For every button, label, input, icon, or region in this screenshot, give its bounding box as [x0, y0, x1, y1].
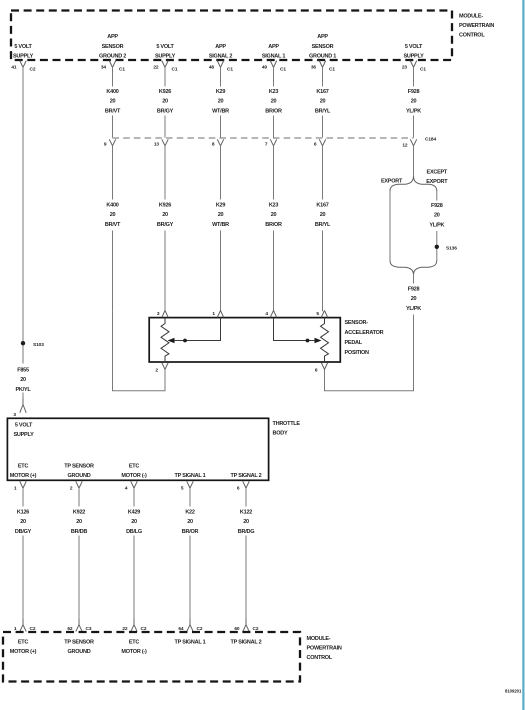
svg-text:DB/LG: DB/LG: [126, 529, 142, 535]
svg-text:SUPPLY: SUPPLY: [13, 54, 34, 60]
svg-text:1: 1: [14, 486, 17, 492]
PCM pin label: 5 VOLT SUPPLY: [155, 44, 176, 60]
wire K29 20 WT/BR (lower segment): [212, 146, 229, 311]
svg-text:BR/OR: BR/OR: [265, 108, 282, 114]
svg-text:23: 23: [402, 65, 408, 71]
bottom PCM pin label: ETC MOTOR (-): [121, 640, 147, 656]
svg-text:MODULE-: MODULE-: [307, 636, 331, 642]
svg-text:K29: K29: [216, 203, 226, 209]
svg-text:BR/GY: BR/GY: [157, 108, 174, 114]
label: THROTTLE BODY: [273, 421, 301, 437]
connector C184 (in-line, dashed): [113, 137, 437, 143]
wire K400 elbow to sensor pin 2: [113, 311, 166, 391]
svg-text:C2: C2: [30, 67, 36, 73]
svg-text:20: 20: [110, 99, 116, 105]
svg-text:POWERTRAIN: POWERTRAIN: [459, 23, 494, 29]
svg-text:SUPPLY: SUPPLY: [13, 432, 34, 438]
svg-text:TP SENSOR: TP SENSOR: [64, 640, 94, 646]
svg-text:THROTTLE: THROTTLE: [273, 421, 301, 427]
sensor pin 4 connector (top): [265, 311, 276, 318]
svg-text:SENSOR: SENSOR: [102, 44, 124, 50]
svg-text:K23: K23: [269, 89, 279, 95]
splice S136: [435, 245, 458, 252]
svg-text:SENSOR-: SENSOR-: [345, 320, 369, 326]
wire K922 20 BR/DB: [71, 488, 87, 618]
sensor pin 2 connector (bottom): [155, 363, 168, 374]
svg-text:EXCEPT: EXCEPT: [427, 170, 448, 176]
module: THROTTLE BODY (box): [7, 418, 268, 480]
svg-text:6: 6: [315, 368, 318, 374]
svg-text:20: 20: [20, 377, 26, 383]
PCM pin label: 5 VOLT SUPPLY: [403, 44, 424, 60]
potentiometer APP1 (left element): [161, 318, 169, 363]
svg-text:BR/VT: BR/VT: [105, 222, 121, 228]
PCM pin 64 C2 connector (bottom module): [178, 618, 203, 632]
svg-text:20: 20: [218, 212, 224, 218]
wire K400 20 BR/VT (lower segment): [105, 146, 121, 311]
svg-text:20: 20: [271, 212, 277, 218]
wire K429 20 DB/LG: [126, 488, 142, 618]
svg-text:C184: C184: [425, 137, 436, 143]
svg-text:S103: S103: [33, 342, 44, 348]
wire K400 20 BR/VT (upper segment): [105, 67, 121, 138]
svg-text:K122: K122: [240, 510, 252, 516]
module U1: MODULE-POWERTRAIN CONTROL (bottom dashed box): [3, 632, 300, 682]
PCM pin 49 C1 connector: [262, 61, 287, 73]
wire K29 20 WT/BR (upper segment): [212, 67, 229, 138]
svg-text:20: 20: [320, 99, 326, 105]
svg-text:BR/YL: BR/YL: [315, 222, 331, 228]
svg-text:CONTROL: CONTROL: [307, 655, 333, 661]
throttle body pin 6 connector (bottom): [237, 481, 249, 491]
svg-text:20: 20: [131, 519, 137, 525]
wire K22 20 BR/OR: [182, 488, 199, 618]
svg-text:SUPPLY: SUPPLY: [155, 54, 176, 60]
bottom PCM pin label: TP SIGNAL 1: [175, 640, 206, 646]
svg-text:MOTOR (-): MOTOR (-): [121, 473, 147, 479]
potentiometer APP2 wiper arm: [274, 318, 322, 344]
svg-text:SUPPLY: SUPPLY: [403, 54, 424, 60]
throttle body pin label: 5 VOLT SUPPLY: [13, 423, 34, 439]
sensor pin 6 connector (bottom): [315, 363, 328, 374]
svg-text:49: 49: [262, 65, 268, 71]
svg-text:WT/BR: WT/BR: [212, 222, 229, 228]
svg-text:20: 20: [411, 99, 417, 105]
svg-text:SENSOR: SENSOR: [312, 44, 334, 50]
PCM pin 36 C1 connector: [311, 61, 336, 73]
svg-text:K922: K922: [73, 510, 85, 516]
PCM pin 60 C2 connector (bottom module): [234, 618, 259, 632]
svg-text:WT/BR: WT/BR: [212, 108, 229, 114]
sensor pin 1 connector (top): [212, 311, 223, 318]
svg-text:20: 20: [162, 212, 168, 218]
svg-text:3: 3: [157, 311, 160, 317]
svg-text:C1: C1: [227, 67, 233, 73]
svg-text:EXPORT: EXPORT: [381, 179, 403, 185]
svg-text:ETC: ETC: [18, 640, 29, 646]
svg-text:POWERTRAIN: POWERTRAIN: [307, 646, 342, 652]
svg-text:20: 20: [187, 519, 193, 525]
wire K122 20 BR/DG: [238, 488, 254, 618]
svg-text:8109201: 8109201: [505, 689, 522, 694]
PCM pin label: APP SENSOR GROUND 1: [309, 34, 336, 59]
svg-text:GROUND 1: GROUND 1: [309, 54, 336, 60]
svg-text:6: 6: [314, 142, 317, 148]
svg-text:ETC: ETC: [18, 464, 29, 470]
label: MODULE-POWERTRAIN CONTROL (top right): [459, 14, 494, 39]
svg-text:EXPORT: EXPORT: [426, 179, 448, 185]
wire K167 20 BR/YL (lower segment): [315, 146, 331, 311]
svg-text:BR/YL: BR/YL: [315, 108, 331, 114]
throttle body pin label: ETC MOTOR (+): [10, 464, 37, 480]
option split brace (top): [390, 176, 437, 191]
svg-text:BR/GY: BR/GY: [157, 222, 174, 228]
svg-text:20: 20: [110, 212, 116, 218]
PCM pin 41 C2 connector: [11, 61, 36, 73]
svg-text:8: 8: [212, 142, 215, 148]
svg-text:K400: K400: [106, 203, 118, 209]
connector C184 pin 6: [314, 139, 326, 147]
svg-text:PEDAL: PEDAL: [345, 340, 363, 346]
svg-text:ETC: ETC: [129, 640, 140, 646]
wire F928 20 YL/PK (lower segment to sensor pin 6): [325, 275, 422, 391]
svg-text:TP SIGNAL 1: TP SIGNAL 1: [175, 473, 206, 479]
svg-text:9: 9: [104, 142, 107, 148]
label: SENSOR-ACCELERATOR PEDAL POSITION: [345, 320, 384, 356]
svg-text:TP SIGNAL 2: TP SIGNAL 2: [231, 640, 262, 646]
svg-text:20: 20: [434, 213, 440, 219]
svg-text:20: 20: [218, 99, 224, 105]
throttle body pin 4 connector (bottom): [125, 481, 137, 491]
throttle body pin 2 connector (bottom): [70, 481, 82, 491]
svg-text:C1: C1: [280, 67, 286, 73]
svg-text:20: 20: [411, 296, 417, 302]
wire F928 segment to option split: [413, 146, 415, 176]
PCM pin 34 C1 connector: [101, 61, 126, 73]
wire K167 20 BR/YL (upper segment): [315, 67, 331, 138]
connector C184 pin 13: [154, 139, 168, 147]
connector C184 pin 12: [402, 139, 416, 148]
wire K926 20 BR/GY (upper segment): [157, 67, 174, 138]
svg-text:C1: C1: [420, 67, 426, 73]
sensor B1: ACCELERATOR PEDAL POSITION (box): [149, 318, 340, 362]
svg-text:APP: APP: [268, 44, 279, 50]
svg-text:DB/GY: DB/GY: [15, 529, 32, 535]
svg-text:APP: APP: [317, 34, 328, 40]
wire K126 20 DB/GY: [15, 488, 32, 618]
svg-text:3: 3: [13, 412, 16, 418]
svg-text:34: 34: [101, 65, 107, 71]
PCM pin 48 C1 connector: [209, 61, 234, 73]
svg-text:5 VOLT: 5 VOLT: [156, 44, 174, 50]
wire F928 20 YL/PK (upper segment from PCM pin 23): [406, 67, 421, 138]
svg-text:YL/PK: YL/PK: [406, 306, 421, 312]
svg-text:F928: F928: [431, 203, 443, 209]
svg-text:20: 20: [76, 519, 82, 525]
throttle body pin label: ETC MOTOR (-): [121, 464, 147, 480]
module U1: MODULE-POWERTRAIN CONTROL (top dashed box): [11, 11, 452, 61]
svg-text:6: 6: [237, 486, 240, 492]
PCM pin 62 C3 connector (bottom module): [67, 618, 92, 632]
wire K926 20 BR/GY (lower segment): [157, 146, 174, 311]
svg-text:TP SIGNAL 2: TP SIGNAL 2: [231, 473, 262, 479]
svg-text:F855: F855: [17, 368, 29, 374]
PCM pin label: APP SENSOR GROUND 2: [99, 34, 126, 59]
PCM pin label: 5 VOLT SUPPLY: [13, 44, 34, 60]
svg-text:K400: K400: [106, 89, 118, 95]
PCM pin 22 C2 connector (bottom module): [122, 618, 147, 632]
svg-text:F928: F928: [408, 287, 420, 293]
svg-text:K126: K126: [17, 510, 29, 516]
svg-text:1: 1: [212, 311, 215, 317]
svg-text:C1: C1: [172, 67, 178, 73]
svg-text:5 VOLT: 5 VOLT: [405, 44, 423, 50]
throttle body pin label: TP SIGNAL 2: [231, 473, 262, 479]
svg-text:K22: K22: [185, 510, 195, 516]
bottom PCM pin label: TP SIGNAL 2: [231, 640, 262, 646]
svg-text:20: 20: [320, 212, 326, 218]
wire F855 20 PK/YL (5 volt supply to throttle body): [16, 67, 32, 399]
svg-text:BODY: BODY: [273, 431, 288, 437]
label: EXCEPT EXPORT (right branch): [426, 170, 448, 186]
svg-text:20: 20: [20, 519, 26, 525]
svg-text:K926: K926: [159, 203, 171, 209]
sensor pin 5 connector (top): [316, 311, 327, 318]
svg-text:22: 22: [153, 65, 159, 71]
svg-text:BR/DB: BR/DB: [71, 529, 87, 535]
svg-text:TP SENSOR: TP SENSOR: [64, 464, 94, 470]
connector C184 pin 8: [212, 139, 224, 147]
svg-text:4: 4: [125, 486, 128, 492]
svg-text:SIGNAL 1: SIGNAL 1: [262, 54, 285, 60]
svg-text:GROUND 2: GROUND 2: [99, 54, 126, 60]
svg-text:ACCELERATOR: ACCELERATOR: [345, 330, 384, 336]
svg-text:5: 5: [181, 486, 184, 492]
wire K23 20 BR/OR (lower segment): [265, 146, 282, 311]
svg-text:BR/OR: BR/OR: [265, 222, 282, 228]
throttle body pin label: TP SENSOR GROUND: [64, 464, 94, 480]
svg-text:5: 5: [316, 311, 319, 317]
svg-text:ETC: ETC: [129, 464, 140, 470]
svg-text:YL/PK: YL/PK: [406, 108, 421, 114]
svg-text:MODULE-: MODULE-: [459, 14, 483, 20]
svg-text:APP: APP: [215, 44, 226, 50]
label: MODULE-POWERTRAIN CONTROL (bottom right): [307, 636, 342, 661]
svg-text:K167: K167: [316, 203, 328, 209]
svg-text:36: 36: [311, 65, 317, 71]
svg-text:2: 2: [70, 486, 73, 492]
potentiometer APP2 (right element): [321, 318, 329, 363]
option rejoin brace (bottom): [390, 261, 437, 275]
svg-text:APP: APP: [107, 34, 118, 40]
svg-text:S136: S136: [446, 246, 457, 252]
connector C184 pin 9: [104, 139, 116, 147]
svg-text:BR/OR: BR/OR: [182, 529, 199, 535]
svg-text:5 VOLT: 5 VOLT: [15, 423, 33, 429]
svg-text:POSITION: POSITION: [345, 350, 370, 356]
svg-text:K29: K29: [216, 89, 226, 95]
svg-text:GROUND: GROUND: [68, 473, 91, 479]
svg-text:K23: K23: [269, 203, 279, 209]
svg-text:F928: F928: [408, 89, 420, 95]
svg-text:YL/PK: YL/PK: [429, 222, 444, 228]
svg-text:MOTOR (+): MOTOR (+): [10, 649, 37, 655]
bottom PCM pin label: ETC MOTOR (+): [10, 640, 37, 656]
svg-text:C1: C1: [329, 67, 335, 73]
svg-text:K429: K429: [128, 510, 140, 516]
svg-text:7: 7: [265, 142, 268, 148]
potentiometer APP1 wiper arm: [168, 318, 221, 344]
throttle body pin 1 connector (bottom): [14, 481, 26, 491]
svg-text:SIGNAL 2: SIGNAL 2: [209, 54, 232, 60]
wire K23 20 BR/OR (upper segment): [265, 67, 282, 138]
svg-text:TP SIGNAL 1: TP SIGNAL 1: [175, 640, 206, 646]
PCM pin 22 C1 connector: [153, 61, 178, 73]
bottom PCM pin label: TP SENSOR GROUND: [64, 640, 94, 656]
svg-text:MOTOR (+): MOTOR (+): [10, 473, 37, 479]
wire export-variant branch (left, unlabeled): [389, 191, 391, 261]
svg-text:5 VOLT: 5 VOLT: [14, 44, 32, 50]
connector C184 pin 7: [265, 139, 277, 147]
svg-text:13: 13: [154, 142, 160, 148]
svg-text:20: 20: [162, 99, 168, 105]
svg-text:41: 41: [11, 65, 17, 71]
svg-text:48: 48: [209, 65, 215, 71]
svg-text:PK/YL: PK/YL: [16, 387, 32, 393]
svg-text:20: 20: [271, 99, 277, 105]
svg-text:BR/VT: BR/VT: [105, 108, 121, 114]
svg-text:GROUND: GROUND: [68, 649, 91, 655]
wire F928 20 YL/PK (right branch, except export): [429, 191, 444, 261]
svg-text:CONTROL: CONTROL: [459, 33, 485, 39]
svg-text:2: 2: [155, 368, 158, 374]
svg-text:C1: C1: [119, 67, 125, 73]
throttle body pin 3 connector: [13, 399, 26, 419]
sensor pin 3 connector (top): [157, 311, 168, 318]
PCM pin 1 C2 connector (bottom module): [14, 618, 36, 632]
PCM pin label: APP SIGNAL 2: [209, 44, 232, 60]
svg-text:12: 12: [402, 143, 408, 149]
PCM pin label: APP SIGNAL 1: [262, 44, 285, 60]
svg-text:K926: K926: [159, 89, 171, 95]
page edge rule (blue): [522, 0, 524, 710]
svg-text:K167: K167: [316, 89, 328, 95]
splice S103: [21, 341, 44, 348]
PCM pin 23 C1 connector: [402, 61, 427, 73]
svg-text:BR/DG: BR/DG: [238, 529, 254, 535]
svg-text:4: 4: [265, 311, 268, 317]
throttle body pin 5 connector (bottom): [181, 481, 193, 491]
svg-text:MOTOR (-): MOTOR (-): [121, 649, 147, 655]
svg-text:20: 20: [243, 519, 249, 525]
throttle body pin label: TP SIGNAL 1: [175, 473, 206, 479]
